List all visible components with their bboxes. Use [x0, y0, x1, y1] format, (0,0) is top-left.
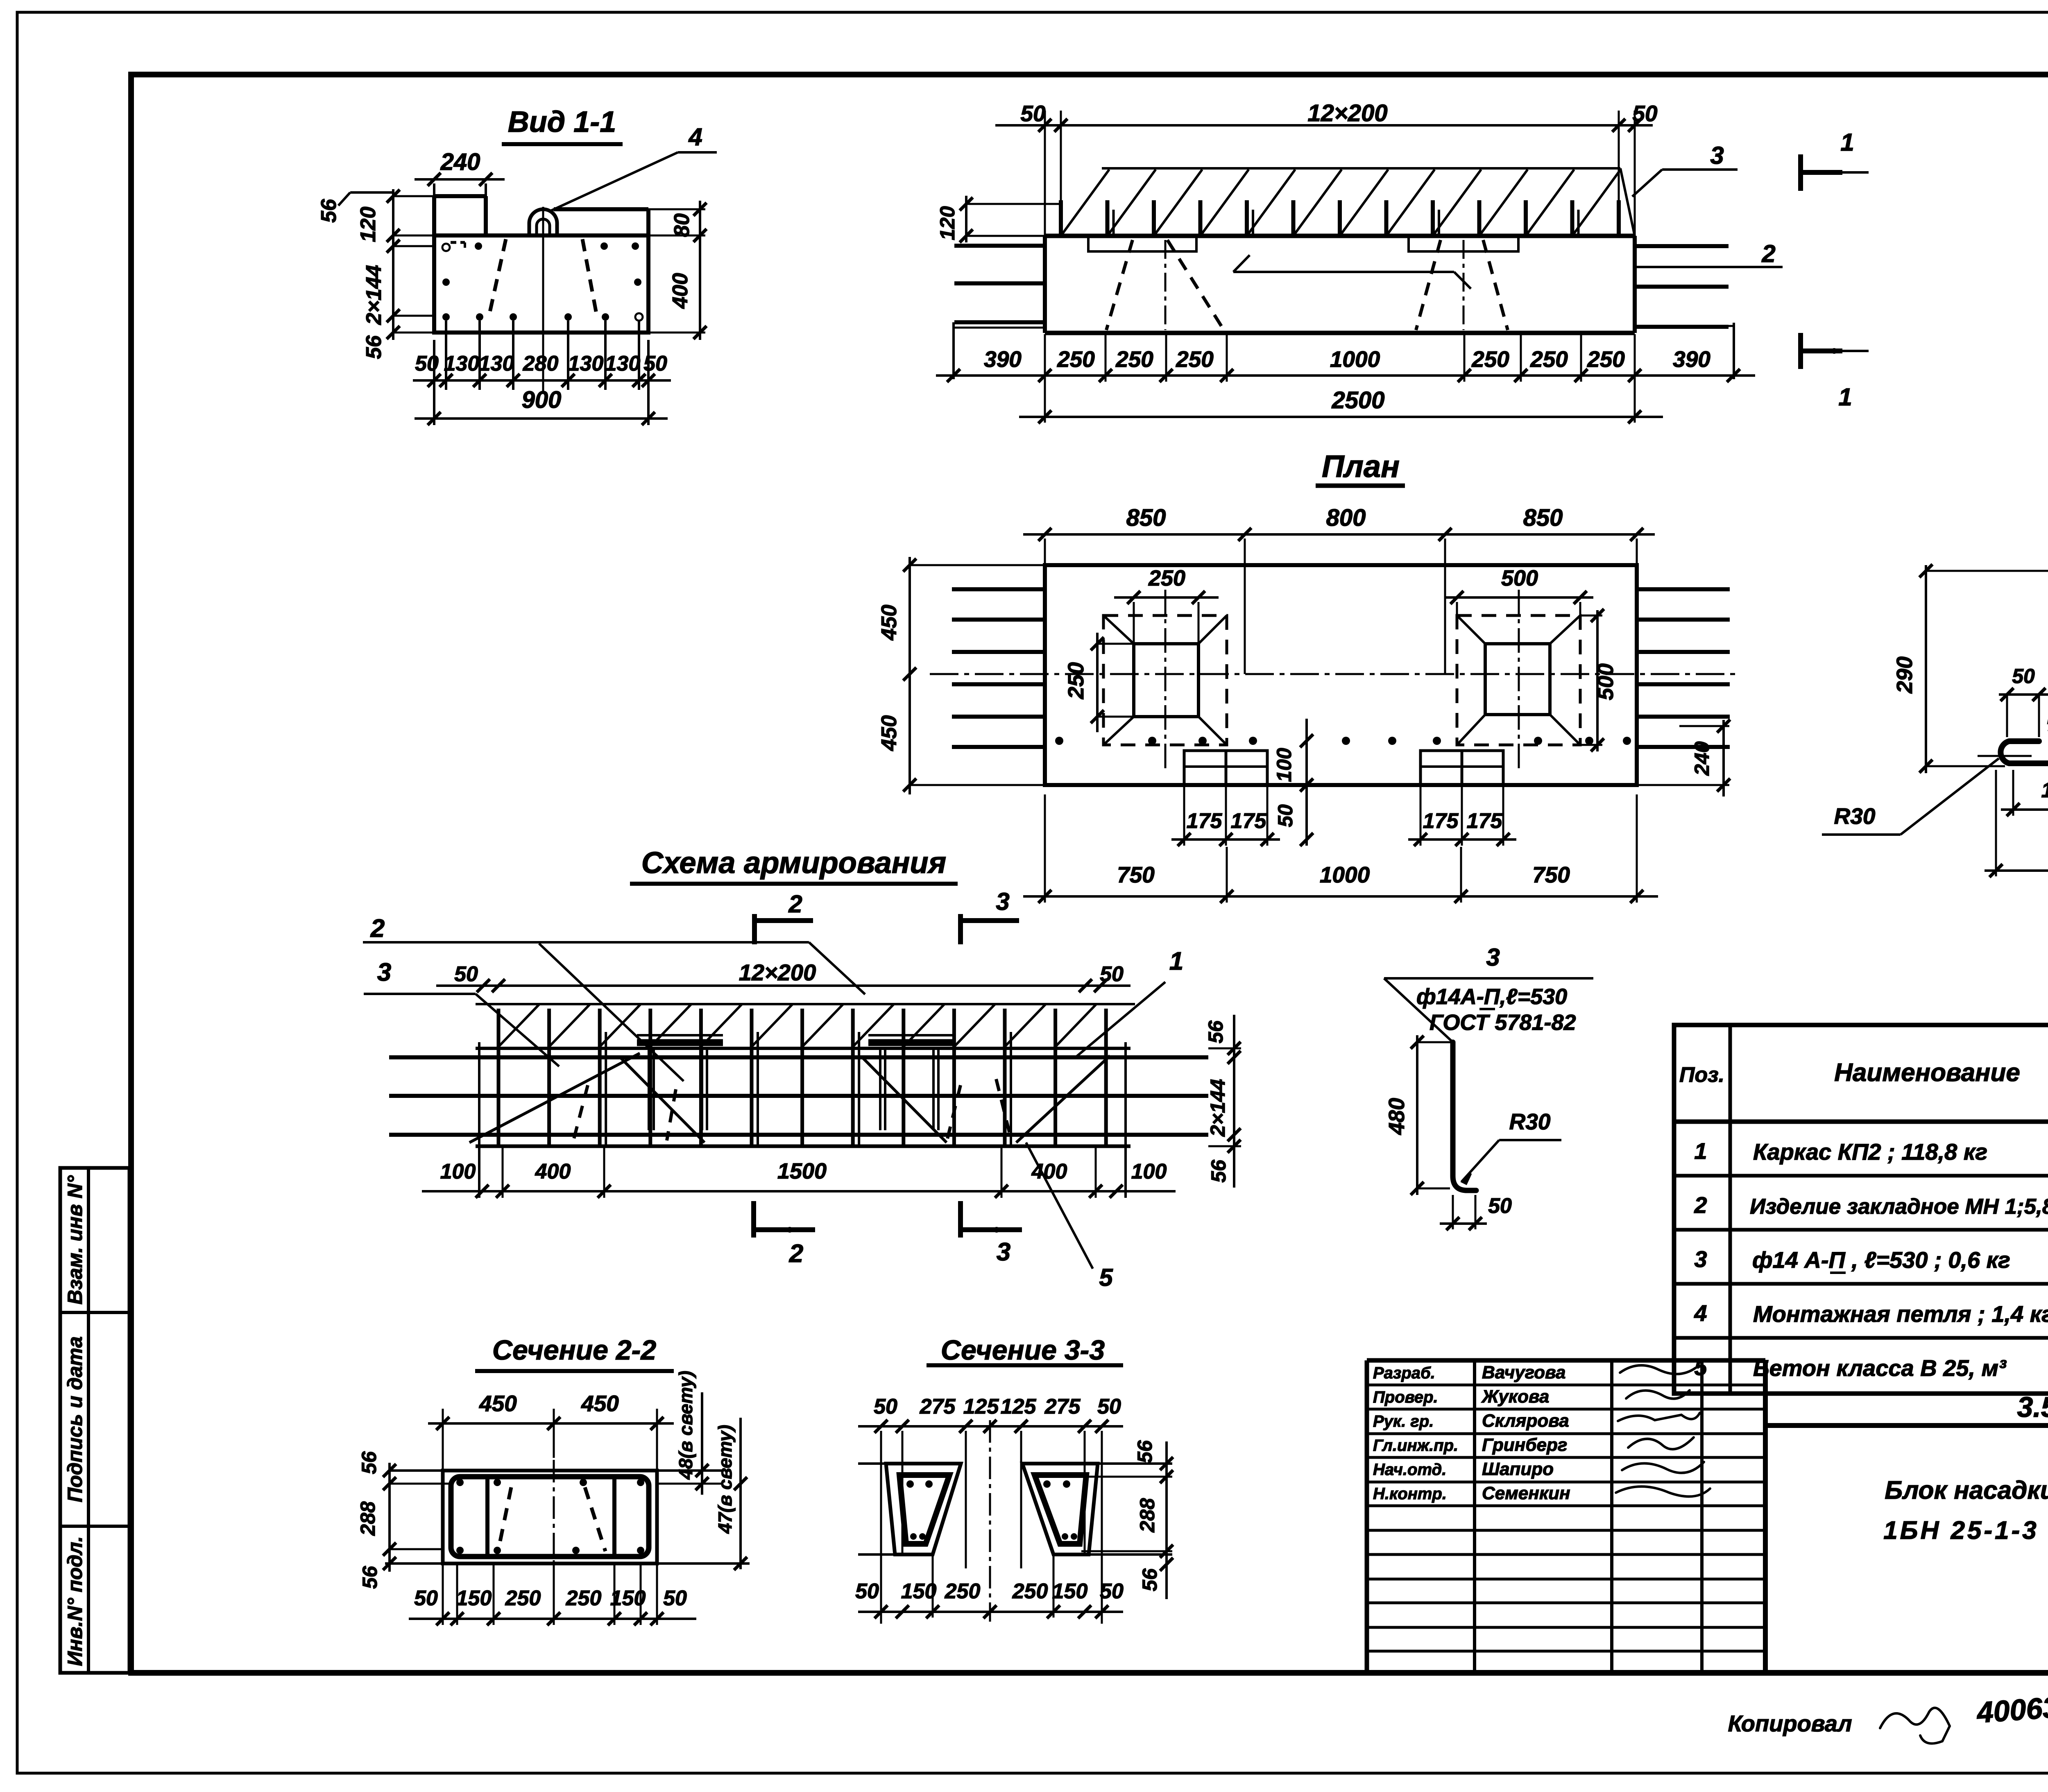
bar 3 dim 480: [1416, 1035, 1418, 1195]
plan bottom chain 750 1000 750: [1023, 895, 1658, 898]
svg-text:5: 5: [1099, 1264, 1113, 1291]
scheme bottom chord: [476, 1145, 1130, 1148]
svg-text:450: 450: [479, 1391, 517, 1416]
svg-text:150: 150: [1052, 1579, 1088, 1603]
svg-text:750: 750: [1532, 862, 1570, 887]
section 2-2 left chain 56 288 56: [388, 1463, 391, 1572]
svg-text:Сечение 3-3: Сечение 3-3: [941, 1335, 1105, 1366]
svg-text:120: 120: [356, 207, 380, 242]
plan dims 100 50 center: [1305, 719, 1308, 846]
svg-text:250: 250: [945, 1579, 981, 1603]
svg-text:850: 850: [1126, 505, 1166, 531]
svg-text:Наименование: Наименование: [1834, 1059, 2020, 1087]
svg-text:Сечение 2-2: Сечение 2-2: [492, 1335, 656, 1366]
svg-text:Нач.отд.: Нач.отд.: [1373, 1461, 1446, 1479]
plan left socket corner funnels: [1103, 615, 1134, 644]
svg-text:125: 125: [1001, 1395, 1037, 1419]
svg-text:50: 50: [1274, 804, 1297, 827]
svg-text:450: 450: [581, 1391, 619, 1416]
scheme cage end verticals: [478, 1042, 480, 1198]
svg-text:240: 240: [1690, 741, 1713, 776]
svg-text:50: 50: [643, 352, 667, 376]
svg-text:Копировал: Копировал: [1728, 1711, 1852, 1736]
svg-text:250: 250: [1148, 566, 1185, 591]
plan left socket inner square: [1134, 644, 1198, 717]
plan right socket hole dashed square: [1457, 615, 1580, 745]
svg-text:56: 56: [317, 199, 341, 223]
view 1-1 rebar dots bottom row: [442, 313, 450, 321]
svg-text:2: 2: [789, 1240, 803, 1268]
svg-text:280: 280: [523, 352, 559, 376]
svg-text:R30: R30: [1834, 803, 1876, 829]
section 2-2 dim 47 v svetu: [739, 1418, 742, 1569]
svg-text:450: 450: [877, 715, 901, 751]
svg-text:3: 3: [997, 1238, 1010, 1266]
plan body rectangle: [1045, 565, 1637, 785]
elevation top dim 50 12x200 50: [995, 124, 1653, 127]
svg-text:390: 390: [984, 346, 1022, 372]
section 3-3 right chain 56 288 56: [1165, 1441, 1168, 1599]
section 3-3 left rebar dots: [906, 1480, 914, 1488]
svg-text:50: 50: [1100, 1579, 1124, 1603]
loop detail chain 115 120 115: [2001, 808, 2048, 811]
elevation bottom chain 390 250x3 1000 250x3 390: [936, 374, 1755, 377]
elevation dim 2500: [1019, 416, 1663, 418]
elevation beam body: [1045, 234, 1635, 238]
plan right socket corner funnels: [1457, 615, 1485, 644]
svg-text:450: 450: [877, 605, 901, 641]
scheme brace diagonals: [469, 1053, 640, 1143]
svg-text:Провер.: Провер.: [1373, 1388, 1438, 1406]
section 2-2 dim 48 v svetu: [701, 1392, 703, 1495]
svg-text:250: 250: [1530, 346, 1568, 372]
svg-text:Гринберг: Гринберг: [1482, 1435, 1567, 1455]
svg-text:50: 50: [414, 1586, 438, 1610]
svg-text:Гл.инж.пр.: Гл.инж.пр.: [1373, 1437, 1458, 1455]
svg-text:175: 175: [1231, 809, 1267, 833]
section 2-2 outer rectangle: [443, 1471, 657, 1563]
svg-text:3: 3: [1694, 1246, 1707, 1272]
svg-text:130: 130: [479, 352, 514, 376]
svg-text:50: 50: [1100, 962, 1124, 986]
svg-text:50: 50: [1632, 101, 1658, 126]
loop detail dim 50 left hook: [1999, 693, 2048, 696]
svg-text:175: 175: [1187, 809, 1223, 833]
svg-text:2×144: 2×144: [1206, 1079, 1229, 1137]
svg-text:150: 150: [901, 1579, 937, 1603]
svg-text:50: 50: [1020, 101, 1046, 126]
svg-text:Жукова: Жукова: [1481, 1387, 1549, 1407]
svg-text:50: 50: [874, 1395, 897, 1419]
plan dim 240 right: [1722, 720, 1725, 796]
loop detail hook axes: [1978, 755, 2032, 757]
svg-text:100: 100: [1131, 1160, 1167, 1183]
plan left socket axis: [1164, 590, 1167, 771]
view 1-1 dim 240: [433, 183, 435, 196]
svg-text:1: 1: [1838, 383, 1852, 411]
section 3-3 right wall outline: [1022, 1464, 1098, 1554]
svg-text:Поз.: Поз.: [1679, 1063, 1724, 1087]
svg-text:3: 3: [996, 888, 1009, 915]
scheme section flag 3 top: [958, 914, 963, 944]
plan left chain 450 450: [908, 557, 911, 794]
plan protruding bars right: [1636, 587, 1730, 591]
svg-text:240: 240: [440, 149, 480, 175]
svg-text:50: 50: [1097, 1395, 1121, 1419]
svg-text:Инв.N° подл.: Инв.N° подл.: [63, 1536, 86, 1666]
svg-text:56: 56: [1207, 1159, 1230, 1183]
svg-text:3: 3: [1486, 944, 1500, 971]
bar 3 shape: [1453, 1042, 1476, 1190]
svg-text:Разраб.: Разраб.: [1373, 1364, 1435, 1382]
svg-text:500: 500: [1501, 566, 1538, 591]
section 2-2 stirrup frame: [451, 1477, 649, 1557]
plan dims 175 175 left plate: [1171, 838, 1280, 841]
svg-text:130: 130: [444, 352, 480, 376]
section 2-2 dashed diagonals: [498, 1487, 511, 1551]
svg-text:12×200: 12×200: [739, 959, 816, 985]
svg-text:Схема армирования: Схема армирования: [641, 846, 946, 880]
scheme section flag 2 bottom: [751, 1201, 756, 1238]
svg-text:800: 800: [1326, 505, 1366, 531]
section 2-2 bottom chain 50 150 250 250 150 50: [409, 1618, 696, 1620]
loop detail dim 410: [1985, 869, 2048, 872]
section 3-3 edge extension lines: [858, 1462, 886, 1465]
plan protruding bars left: [952, 587, 1046, 591]
stamp outer frame: [1365, 1360, 1369, 1673]
svg-text:275: 275: [1044, 1395, 1081, 1419]
svg-text:50: 50: [855, 1579, 879, 1603]
bar 3 dim 50: [1440, 1222, 1487, 1225]
svg-text:400: 400: [668, 273, 692, 309]
svg-text:288: 288: [1136, 1498, 1159, 1533]
view 1-1 bottom chain 50 130 130 280 130 130 50: [413, 379, 671, 382]
svg-text:250: 250: [1115, 346, 1153, 372]
svg-text:50: 50: [1488, 1194, 1512, 1218]
elevation dashed splays left: [1106, 240, 1133, 330]
svg-text:2: 2: [1694, 1192, 1707, 1218]
scheme embedded plate left: [637, 1039, 723, 1046]
view 1-1 block outline: [434, 235, 648, 333]
scheme right chain 56 2x144 56: [1233, 1015, 1235, 1188]
svg-text:250: 250: [566, 1586, 602, 1610]
label 2 leader right: [1636, 266, 1783, 268]
svg-text:750: 750: [1117, 862, 1155, 887]
svg-text:250: 250: [1012, 1579, 1048, 1603]
scheme top chord: [476, 1047, 1130, 1050]
svg-text:1000: 1000: [1320, 862, 1370, 887]
svg-text:1000: 1000: [1330, 346, 1380, 372]
svg-text:2500: 2500: [1331, 387, 1384, 414]
view 1-1 center axis: [542, 207, 544, 392]
scheme top dim 50 12x200 50: [436, 984, 1130, 987]
section 3-3 bottom chain 50 150 250 250 150 50: [858, 1611, 1123, 1613]
svg-text:125: 125: [963, 1395, 999, 1419]
plan dims 175 175 right plate: [1408, 838, 1516, 841]
view 1-1 left dimension chain 56 120 2x144 56: [392, 189, 394, 340]
svg-text:1: 1: [1694, 1138, 1707, 1164]
svg-text:4: 4: [688, 123, 702, 151]
scheme stirrups: [497, 1009, 501, 1146]
elevation embedded plate MH1 right: [1409, 237, 1518, 251]
section 2-2 top dim 450 450: [428, 1422, 674, 1425]
svg-text:Вачугова: Вачугова: [1482, 1362, 1565, 1382]
section 3-3 left stirrup frame: [899, 1475, 949, 1544]
elevation protruding bars left: [954, 244, 1046, 248]
section 3-3 extension verticals: [880, 1431, 882, 1624]
materials table frame: [1674, 1025, 2048, 1394]
svg-text:Блок насадки: Блок насадки: [1885, 1476, 2048, 1505]
svg-text:Взам. инв N°: Взам. инв N°: [63, 1175, 86, 1304]
svg-text:Монтажная петля ; 1,4 кг: Монтажная петля ; 1,4 кг: [1753, 1301, 2048, 1327]
plan dim 250 top of left socket: [1114, 596, 1219, 599]
view 1-1 right dimension chain 80 400: [699, 201, 701, 340]
plan center axis: [930, 673, 1741, 675]
plan right socket axis: [1518, 590, 1520, 771]
svg-text:56: 56: [1133, 1440, 1156, 1463]
svg-text:Склярова: Склярова: [1482, 1411, 1569, 1431]
svg-text:130: 130: [568, 352, 604, 376]
svg-text:56: 56: [1138, 1568, 1161, 1591]
svg-text:50: 50: [663, 1586, 687, 1610]
svg-text:Шапиро: Шапиро: [1482, 1459, 1554, 1479]
svg-text:250: 250: [1176, 346, 1214, 372]
view 1-1 rebar dots middle row: [442, 278, 450, 286]
elevation hidden step edge: [1233, 255, 1250, 272]
svg-text:500: 500: [1593, 663, 1618, 700]
plan dim 500 right of right socket: [1596, 610, 1599, 751]
stamp signatures scribbles: [1620, 1365, 1696, 1374]
left margin strip frame: [60, 1168, 129, 1673]
elevation protruding bars right: [1634, 244, 1729, 248]
svg-text:175: 175: [1423, 809, 1459, 833]
svg-text:ф14 А-П , ℓ=530 ; 0,6 кг: ф14 А-П , ℓ=530 ; 0,6 кг: [1752, 1247, 2010, 1273]
plan embedded plate right: [1420, 751, 1503, 785]
plan right socket inner square: [1485, 644, 1550, 715]
svg-text:Подпись и дата: Подпись и дата: [63, 1336, 86, 1502]
svg-text:ф14А-П,ℓ=530: ф14А-П,ℓ=530: [1416, 984, 1567, 1009]
svg-text:850: 850: [1523, 505, 1563, 531]
svg-text:1БН 25-1-3: 1БН 25-1-3: [1883, 1516, 2039, 1545]
svg-text:56: 56: [358, 1566, 381, 1589]
section mark 1 upper: [1798, 154, 1803, 191]
svg-text:480: 480: [1384, 1098, 1409, 1135]
svg-text:4: 4: [1694, 1300, 1707, 1326]
svg-text:1: 1: [1169, 947, 1183, 975]
elevation dim 120 left: [965, 196, 967, 242]
svg-text:2: 2: [788, 890, 802, 918]
section 3-3 right rebar dots: [1043, 1480, 1051, 1488]
svg-text:Семенкин: Семенкин: [1482, 1483, 1570, 1503]
view 1-1 dashed splay lines: [489, 239, 506, 316]
elevation dashed splays right: [1416, 240, 1441, 330]
svg-text:1500: 1500: [777, 1159, 827, 1183]
elevation embedded plate MH1 left: [1088, 237, 1196, 251]
scheme bottom chain 100 400 1500 400 100: [422, 1190, 1176, 1192]
scheme embedded plate right: [868, 1039, 954, 1046]
svg-text:80: 80: [670, 213, 694, 237]
section 2-2 rebar dots: [456, 1479, 464, 1486]
plan dim 500 top of right socket: [1446, 596, 1593, 599]
svg-text:400: 400: [535, 1160, 571, 1183]
section mark 1 lower: [1798, 333, 1803, 369]
svg-text:390: 390: [1673, 346, 1710, 372]
svg-text:120: 120: [936, 206, 959, 240]
label 3 leader top right: [1632, 170, 1662, 197]
view 1-1 bottom bar tails: [445, 321, 447, 390]
svg-text:56: 56: [1204, 1020, 1227, 1043]
svg-text:56: 56: [362, 335, 386, 359]
svg-text:900: 900: [522, 387, 562, 413]
svg-text:288: 288: [356, 1501, 379, 1536]
svg-text:Изделие закладное МН 1;5,8кг: Изделие закладное МН 1;5,8кг: [1750, 1195, 2048, 1219]
section 2-2 stirrup legs: [485, 1477, 489, 1557]
svg-text:Вид 1-1: Вид 1-1: [508, 106, 616, 138]
svg-text:130: 130: [605, 352, 641, 376]
svg-text:План: План: [1322, 449, 1400, 484]
scheme section flag 3 bottom: [958, 1201, 963, 1238]
svg-text:100: 100: [1273, 748, 1296, 782]
svg-text:Рук. гр.: Рук. гр.: [1373, 1412, 1434, 1430]
svg-text:250: 250: [1064, 662, 1088, 699]
svg-text:290: 290: [1892, 656, 1917, 694]
svg-text:115: 115: [2041, 778, 2048, 802]
view 1-1 right raised surface 80: [554, 207, 648, 211]
section 3-3 right stirrup frame: [1035, 1475, 1086, 1544]
section 2-2 center axis: [553, 1460, 555, 1577]
loop detail wire shape: [2000, 579, 2048, 763]
svg-text:2: 2: [370, 914, 385, 943]
svg-text:3: 3: [1710, 142, 1724, 169]
svg-text:175: 175: [1467, 809, 1503, 833]
svg-text:Н.контр.: Н.контр.: [1373, 1485, 1447, 1503]
svg-text:48(в свету): 48(в свету): [675, 1371, 696, 1480]
loop detail dim 290: [1925, 565, 1927, 773]
svg-text:R30: R30: [1509, 1109, 1551, 1134]
elevation stirrup top ticks: [1059, 200, 1063, 236]
svg-text:250: 250: [1471, 346, 1509, 372]
view 1-1 left step 240x120: [434, 194, 486, 198]
section 3-3 left wall outline: [886, 1464, 961, 1554]
svg-text:3: 3: [377, 958, 391, 987]
svg-text:50: 50: [2012, 665, 2035, 688]
scheme longitudinal bars: [389, 1055, 1208, 1059]
svg-text:2×144: 2×144: [362, 265, 386, 325]
plan dim 250 left of left socket: [1096, 633, 1099, 732]
svg-text:47(в свету): 47(в свету): [714, 1425, 736, 1534]
svg-text:ГОСТ 5781-82: ГОСТ 5781-82: [1430, 1010, 1576, 1035]
stamp signature table grid: [1473, 1360, 1476, 1673]
svg-text:250: 250: [505, 1586, 541, 1610]
svg-text:56: 56: [358, 1451, 381, 1474]
plan embedded plate left: [1184, 751, 1267, 785]
view 1-1 dim 900: [433, 340, 435, 425]
leader 4 to loop: [551, 152, 678, 210]
svg-text:Каркас КП2 ; 118,8 кг: Каркас КП2 ; 118,8 кг: [1753, 1139, 1987, 1165]
elevation hatch band top line: [1102, 167, 1620, 170]
plan anchor dots row: [1055, 737, 1063, 745]
section 3-3 top chain 50 275 125 125 275 50: [858, 1425, 1123, 1428]
svg-text:250: 250: [1057, 346, 1095, 372]
plan top chain 850 800 850: [1023, 533, 1655, 536]
svg-text:3.503.1 - 79.2 - 002: 3.503.1 - 79.2 - 002: [2017, 1391, 2048, 1423]
view 1-1 rebar dots top row: [475, 242, 482, 250]
svg-text:1: 1: [1840, 129, 1854, 156]
scheme hatch band: [476, 1003, 1135, 1005]
svg-text:150: 150: [456, 1586, 492, 1610]
svg-text:275: 275: [920, 1395, 956, 1419]
plan left socket hole dashed square: [1103, 615, 1227, 745]
elevation bar 3 hatch diagonals: [1061, 170, 1109, 236]
svg-text:100: 100: [440, 1160, 476, 1183]
svg-text:2: 2: [1761, 240, 1775, 267]
svg-text:12×200: 12×200: [1307, 100, 1387, 127]
scheme section flag 2 top: [752, 914, 757, 944]
svg-text:Бетон класса В 25, м³: Бетон класса В 25, м³: [1753, 1355, 2007, 1381]
svg-text:50: 50: [454, 962, 478, 986]
view 1-1 lifting loop: [529, 209, 557, 235]
svg-text:250: 250: [1587, 346, 1625, 372]
